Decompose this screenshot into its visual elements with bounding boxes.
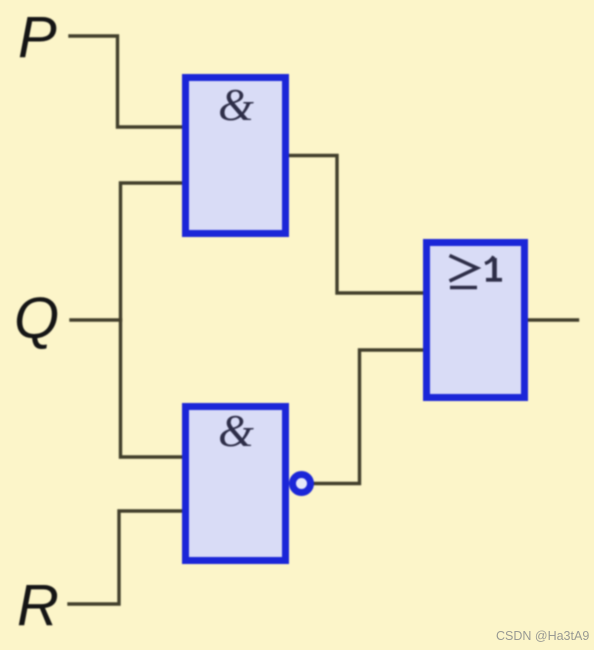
svg-text:R: R: [17, 573, 59, 638]
svg-text:Q: Q: [14, 286, 59, 351]
svg-text:P: P: [18, 5, 57, 70]
svg-text:&: &: [218, 405, 254, 456]
svg-text:&: &: [218, 79, 254, 130]
svg-text:CSDN @Ha3tA9: CSDN @Ha3tA9: [496, 629, 589, 643]
